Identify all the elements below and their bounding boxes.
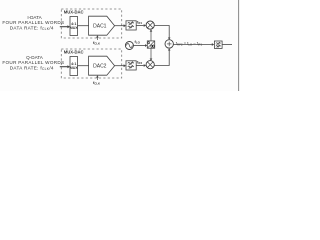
svg-text:fCLK: fCLK (93, 40, 100, 46)
fCLK arrow into DAC1 (93, 35, 100, 45)
dashed box MUX-DAC 1 (61, 9, 121, 38)
DAC1 (89, 16, 115, 35)
svg-text:DAC2: DAC2 (93, 64, 107, 70)
wire LO to splitter (133, 45, 145, 47)
wire filter2 to mixer2 (136, 65, 144, 67)
wire splitter to mixer2 (150, 48, 152, 59)
wire MUX1 to DAC1 (78, 25, 89, 27)
svg-text:fLO: fLO (135, 40, 141, 45)
arrowhead into output filter (212, 43, 214, 46)
node Q-DATA input label (2, 55, 64, 71)
svg-text:DATA RATE: fCLK/4: DATA RATE: fCLK/4 (10, 25, 54, 31)
filter F1 (IF1 bandpass) (126, 21, 136, 30)
dashed box MUX-DAC 2 (61, 49, 121, 78)
wire filter1 to mixer1 (136, 25, 144, 27)
node I-DATA input label (2, 15, 64, 31)
fCLK arrow into DAC2 (93, 75, 100, 85)
wire I-DATA bus arrow into MUX1 (60, 25, 70, 28)
DAC2 (89, 56, 115, 75)
svg-text:MUX-DAC: MUX-DAC (64, 50, 84, 55)
arrowhead up into mixer1 (150, 29, 153, 31)
arrowhead up into summer (168, 48, 171, 50)
svg-text:MUX: MUX (70, 26, 79, 30)
block 4:1 MUX 1 (70, 17, 79, 36)
wire DAC1 to filter1 (115, 25, 124, 27)
svg-text:fRF2 = fLO – fIF1: fRF2 = fLO – fIF1 (176, 41, 203, 47)
filter F2 (IF2 bandpass) (126, 61, 136, 70)
svg-text:DATA RATE: fCLK/4: DATA RATE: fCLK/4 (10, 65, 54, 71)
arrowhead into filter2 (124, 64, 126, 67)
phase splitter 0/90 (147, 41, 154, 48)
wire MUX2 to DAC2 (78, 65, 89, 67)
arrowhead down into summer (168, 38, 171, 40)
arrowhead down into mixer2 (150, 59, 153, 61)
arrowhead into splitter (145, 44, 147, 47)
mixer M1 (146, 21, 154, 29)
svg-text:fIF1: fIF1 (137, 20, 143, 25)
oscillator LO (125, 42, 133, 50)
arrowhead into mixer2 (144, 64, 146, 67)
arrowhead into filter1 (124, 24, 126, 27)
svg-text:MUX-DAC: MUX-DAC (64, 10, 84, 15)
wire DAC2 to filter2 (115, 65, 124, 67)
svg-text:fIF2: fIF2 (137, 60, 143, 65)
svg-text:DAC1: DAC1 (93, 24, 107, 30)
svg-text:MUX: MUX (70, 66, 79, 70)
wire mixer2 to summer (right then up) (154, 50, 169, 66)
block 4:1 MUX 2 (70, 57, 79, 76)
mixer M2 (146, 61, 154, 69)
border right edge (238, 0, 240, 91)
wire Q-DATA bus arrow into MUX2 (60, 65, 70, 68)
arrowhead into mixer1 (144, 24, 146, 27)
wire summer to output filter (173, 44, 212, 46)
wire mixer1 to summer (right then down) (154, 26, 169, 39)
filter F3 (RF output bandpass) (214, 41, 222, 48)
wire splitter to mixer1 (150, 31, 152, 41)
svg-text:fCLK: fCLK (93, 80, 100, 86)
wire output (222, 44, 232, 46)
summer S1 (165, 40, 173, 48)
